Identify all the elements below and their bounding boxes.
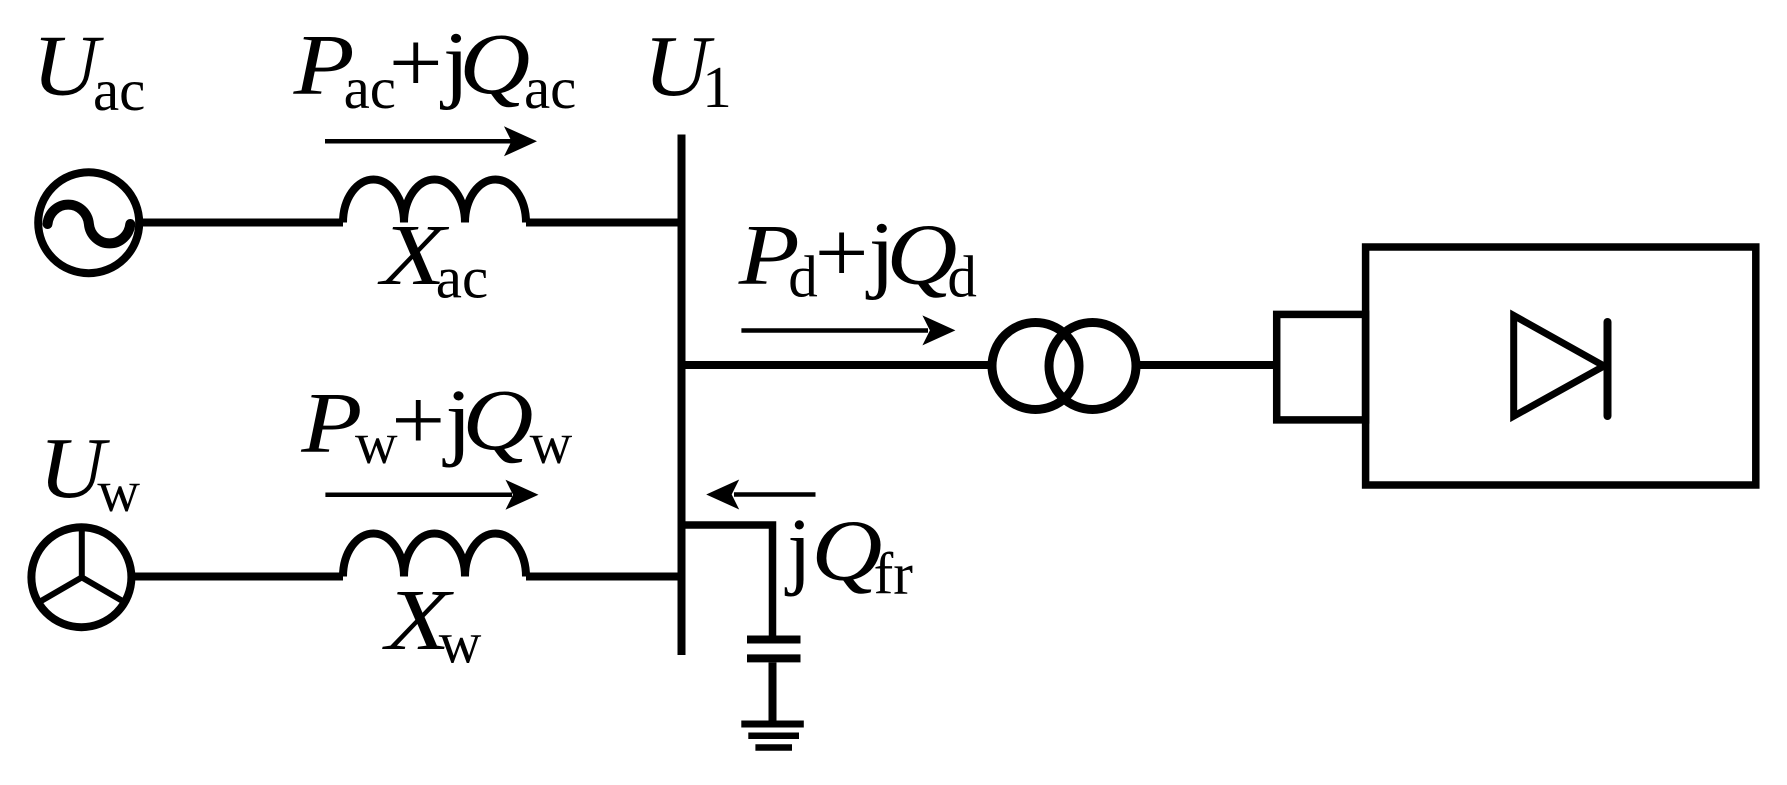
wire bus to transformer (682, 361, 995, 369)
arrow Pw flow (325, 493, 512, 498)
bus U1 (678, 135, 686, 656)
wire capacitor to ground (769, 663, 777, 725)
svg-text:+j: +j (391, 372, 472, 468)
svg-text:w: w (439, 610, 482, 676)
svg-text:Q: Q (459, 16, 530, 113)
svg-text:d: d (788, 244, 818, 310)
converter block large rectangle (1366, 247, 1756, 485)
wire bus to filter capacitor branch (682, 525, 773, 636)
capacitor plate bottom (747, 654, 801, 662)
wire AC source to inductor Xac (139, 219, 343, 227)
arrow Pd flow (741, 328, 928, 333)
svg-text:Q: Q (811, 503, 882, 600)
ground line 3 (755, 744, 792, 751)
AC source U_ac circle (38, 172, 139, 273)
svg-text:ac: ac (436, 244, 488, 310)
wind source spokes (39, 527, 126, 603)
svg-text:ac: ac (93, 57, 145, 123)
svg-text:+j: +j (389, 14, 470, 110)
transformer T circle 1 (992, 323, 1079, 410)
diode triangle (1514, 316, 1604, 417)
svg-text:j: j (784, 500, 811, 597)
svg-text:P: P (300, 376, 362, 472)
ground line 1 (741, 721, 804, 728)
inductor Xw (343, 534, 526, 577)
inductor Xac (343, 180, 526, 223)
converter input port small rectangle (1277, 314, 1366, 420)
svg-text:w: w (97, 458, 140, 524)
AC source sine wave (48, 205, 131, 244)
svg-text:Q: Q (462, 372, 533, 469)
svg-text:ac: ac (524, 55, 576, 121)
wire inductor Xac to bus (526, 219, 682, 227)
svg-text:w: w (530, 410, 573, 476)
diode cathode bar (1604, 322, 1612, 416)
wire inductor Xw to bus (526, 573, 682, 581)
svg-text:+j: +j (815, 205, 896, 301)
svg-text:1: 1 (702, 54, 732, 120)
ground line 2 (748, 732, 799, 739)
wire wind source to inductor Xw (131, 573, 343, 581)
wind source U_w circle (31, 527, 131, 627)
svg-text:fr: fr (874, 540, 914, 606)
svg-text:d: d (947, 244, 977, 310)
capacitor plate top (747, 636, 801, 644)
transformer T circle 2 (1049, 323, 1136, 410)
arrow jQfr flow (left) (734, 492, 816, 497)
arrow Pac flow (325, 139, 512, 144)
wire transformer to converter (1136, 361, 1277, 369)
